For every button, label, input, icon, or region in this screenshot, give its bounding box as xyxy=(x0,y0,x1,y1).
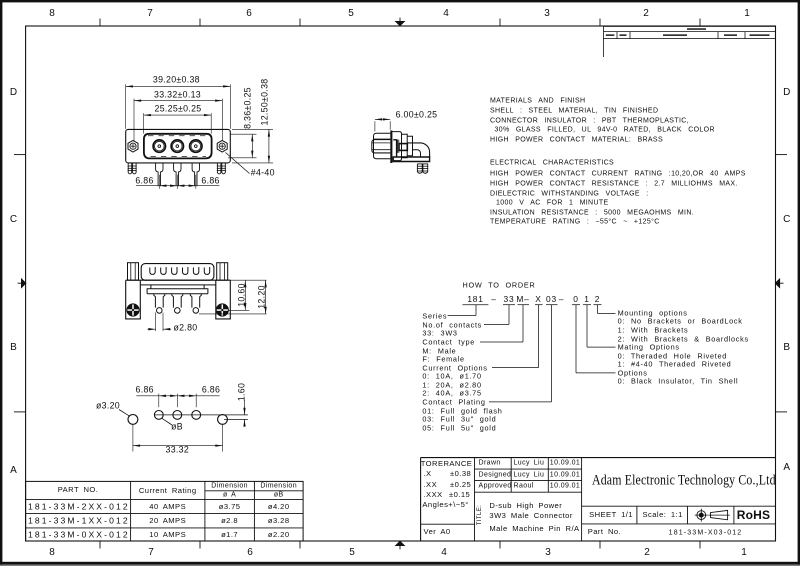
zone letters right edge xyxy=(783,88,790,98)
order leader series xyxy=(475,305,477,316)
dimension 6.86 front right xyxy=(177,185,196,187)
order leader current options xyxy=(538,305,540,368)
side view terminal crimp block xyxy=(399,144,407,151)
side view insulator rear step 1 xyxy=(402,134,408,157)
front view insulator scallop dashes bottom xyxy=(151,156,207,158)
centering arrow right xyxy=(775,279,779,288)
revision table cell blobs xyxy=(606,34,615,36)
materials and finish notes xyxy=(490,98,585,105)
order code 181-33M-X03-012 xyxy=(467,295,483,303)
part number table grid xyxy=(26,481,304,541)
footprint centerline small holes xyxy=(154,414,248,416)
order code underlines xyxy=(463,304,489,306)
front view boardlock left xyxy=(128,163,132,174)
label øB with leader xyxy=(162,418,172,425)
top view flange bracket right xyxy=(216,280,231,319)
top view hex post left xyxy=(128,263,139,281)
top view pin shafts xyxy=(154,294,165,308)
sheet row lines xyxy=(582,505,776,507)
footprint dimension 1.60 xyxy=(244,400,246,415)
top view rivet head right xyxy=(216,304,228,316)
top view flange plate line xyxy=(126,279,231,281)
zone ticks bottom xyxy=(99,541,101,549)
centering arrow top xyxy=(396,21,405,25)
side view terminal elbow xyxy=(407,143,429,157)
revision table drop line xyxy=(603,39,605,57)
top view shell spring slots xyxy=(150,267,155,274)
order labels left column xyxy=(422,313,447,320)
signature table text xyxy=(479,460,501,467)
dimension 6.86 front left xyxy=(158,175,160,189)
side view terminal bottom strip xyxy=(393,157,429,162)
zone letters left edge xyxy=(10,88,17,98)
side view dimension 6.00±0.25 xyxy=(374,121,376,131)
electrical characteristics notes xyxy=(490,159,614,166)
projection symbol target xyxy=(697,511,706,520)
title text block xyxy=(477,504,483,524)
part no text xyxy=(588,528,621,536)
projection symbol cone xyxy=(711,510,728,519)
dimension 8.36±0.25 xyxy=(231,133,257,135)
front view hex standoff right xyxy=(217,140,227,152)
front view power contact 2 xyxy=(171,140,183,152)
order leader mating options xyxy=(586,305,588,347)
sheet outer border xyxy=(0,0,800,2)
revision table header blob REVISIONS xyxy=(687,28,706,30)
zone ticks right xyxy=(776,154,788,156)
order leader contact plating xyxy=(551,305,553,402)
footprint mounting hole right ø3.20 xyxy=(218,415,228,425)
order leader options xyxy=(575,305,577,373)
front view contact tails xyxy=(156,163,163,186)
front view D-sub insulator outer xyxy=(144,134,212,159)
front view hex standoff left xyxy=(128,140,138,152)
side view press-fit pin prongs xyxy=(417,164,422,173)
dimension 25.25±0.25 xyxy=(143,113,145,134)
company name xyxy=(592,474,776,489)
signature table xyxy=(581,458,583,541)
side view shell rear xyxy=(392,132,401,161)
side view contact barrel xyxy=(372,140,391,153)
front view power contact 3 xyxy=(190,140,202,152)
order leader mounting options xyxy=(597,305,599,314)
part number table header xyxy=(58,486,99,494)
revision table column lines xyxy=(616,32,618,39)
zone numbers top edge xyxy=(49,9,55,19)
label ø3.20 with leader xyxy=(119,410,130,417)
footprint contact hole 3 xyxy=(192,411,201,420)
title block outline xyxy=(421,457,776,459)
footprint centerline big holes xyxy=(224,418,248,420)
top view flange bracket left xyxy=(126,280,141,319)
top view hex post right xyxy=(217,263,228,281)
dimension ø2.80 xyxy=(155,313,157,332)
zone ticks top xyxy=(99,19,101,27)
revision table box xyxy=(604,26,776,38)
dimension 39.20±0.38 xyxy=(125,84,127,128)
tolerance box text xyxy=(421,460,473,468)
footprint dimension 33.32 xyxy=(132,425,134,452)
front view insulator scallop dashes top xyxy=(148,135,208,137)
dimension 33.32±0.13 xyxy=(133,99,135,141)
zone ticks left xyxy=(14,154,26,156)
order leader no.of contacts xyxy=(508,305,510,325)
centering arrow left xyxy=(21,279,25,288)
part number table rows xyxy=(28,502,130,511)
how to order heading xyxy=(463,281,536,288)
side view insulator front xyxy=(374,133,391,159)
sheet scale rohs row text xyxy=(589,511,633,519)
top view pin tip circles xyxy=(157,308,163,314)
front view power contact 1 xyxy=(153,140,165,152)
footprint contact hole 2 xyxy=(173,411,182,420)
order labels right column xyxy=(618,309,688,316)
tolerance box xyxy=(474,458,476,541)
centering arrow bottom xyxy=(396,541,405,545)
order leader contact type xyxy=(522,305,524,342)
dimension 12.50±0.38 xyxy=(232,128,273,130)
front view shell flange xyxy=(126,129,231,163)
side view mounting flange xyxy=(390,131,392,164)
zone numbers bottom edge xyxy=(49,548,55,558)
front view boardlock right xyxy=(217,163,221,174)
label #4-40 with leader xyxy=(226,153,250,174)
footprint mounting hole left ø3.20 xyxy=(128,415,138,425)
top view shell xyxy=(141,264,214,281)
side view insulator rear step 2 xyxy=(407,136,412,156)
footprint dimension 6.86 right xyxy=(177,395,196,397)
dimension 10.60 xyxy=(229,279,267,281)
dimension 12.20 xyxy=(199,313,267,315)
top view insulator rear steps xyxy=(151,285,204,289)
top view rivet head left xyxy=(127,304,139,316)
footprint dimension 6.86 left xyxy=(158,394,160,408)
footprint contact hole 1 xyxy=(154,411,163,420)
